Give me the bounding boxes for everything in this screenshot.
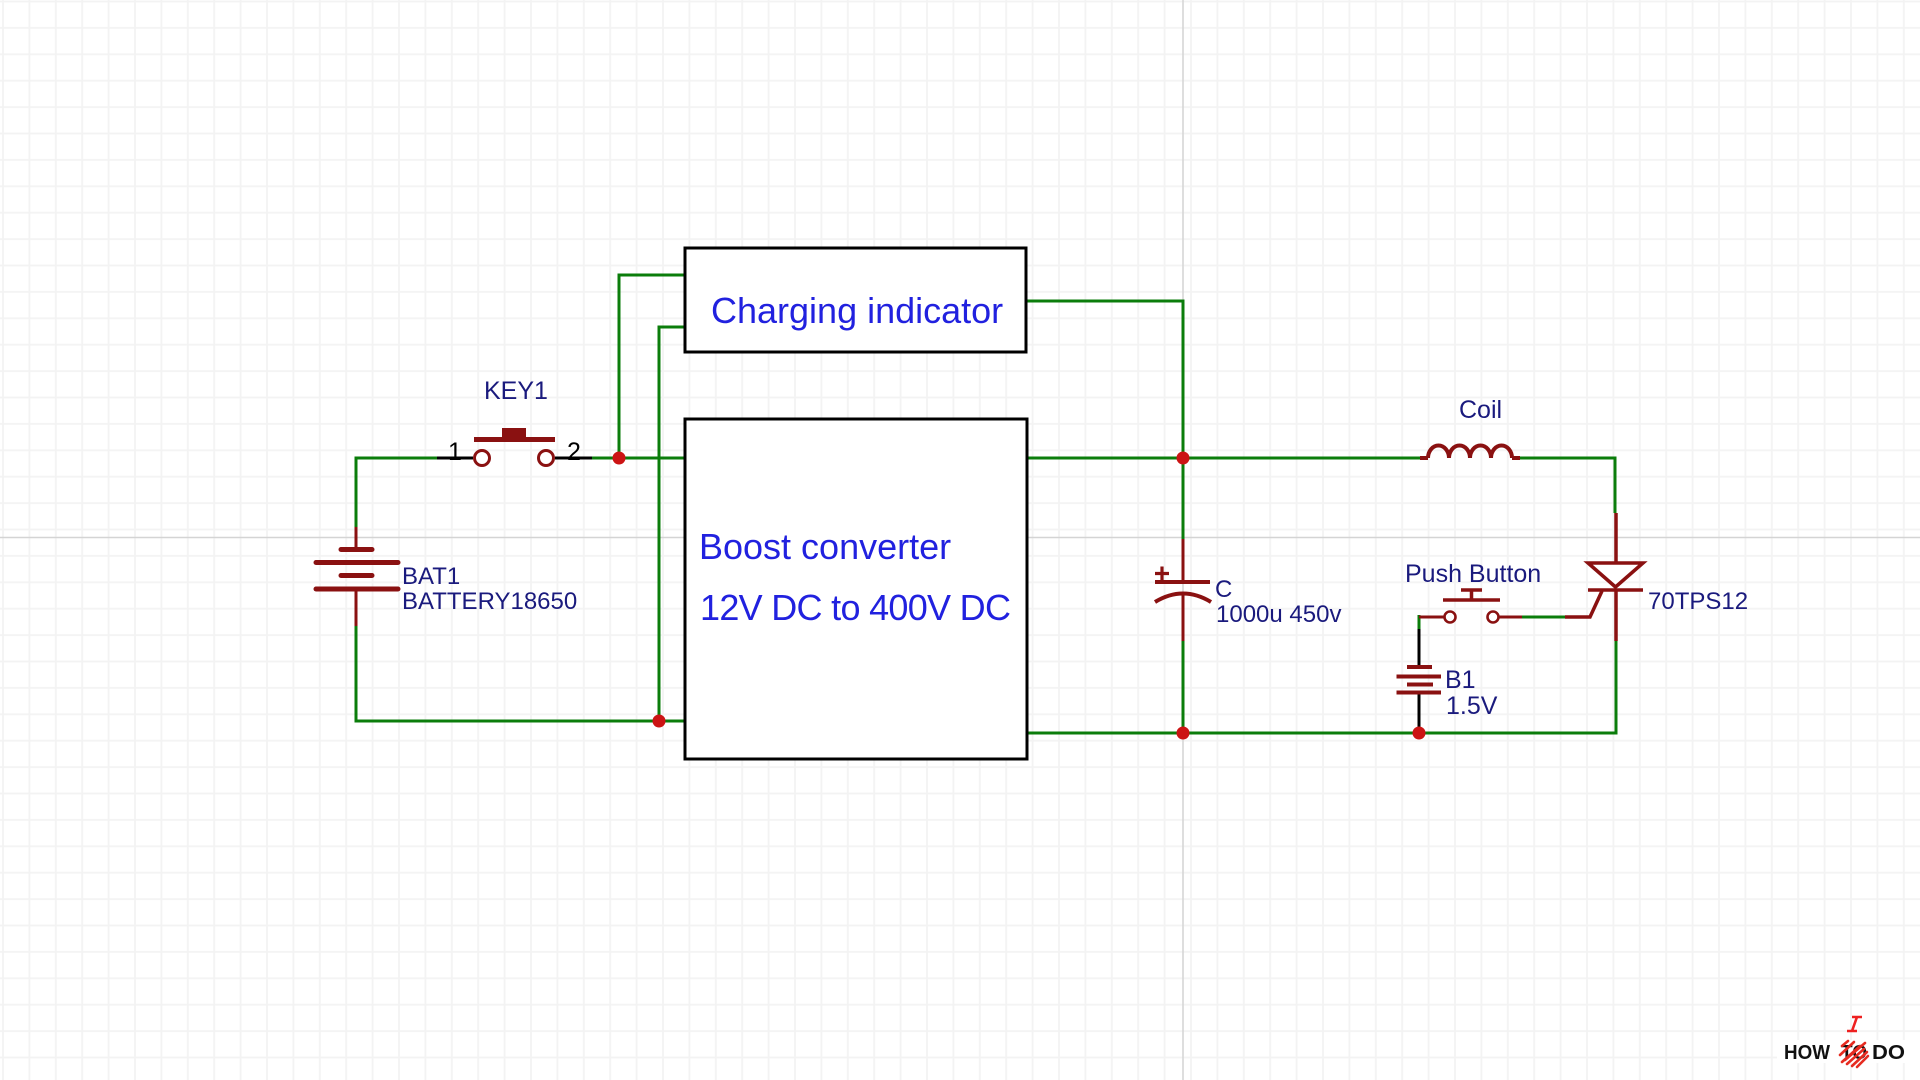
thyristor 70TPS12 (1565, 513, 1643, 641)
switch KEY1 (437, 428, 592, 466)
wire B1 stub (1418, 615, 1421, 629)
svg-text:Charging indicator: Charging indicator (711, 290, 1003, 331)
svg-text:Boost converter: Boost converter (699, 526, 951, 567)
battery BAT1 (316, 527, 398, 626)
inductor Coil (1420, 446, 1520, 459)
wire boost output to coil (1027, 457, 1420, 460)
axis vertical (1182, 0, 1184, 1080)
wire bottom return (1027, 641, 1616, 733)
push button (1419, 590, 1522, 623)
junction node C bottom (1177, 727, 1190, 740)
wire charging indicator second pin down (659, 327, 685, 721)
wire battery bottom to boost converter (356, 626, 685, 721)
junction node B (653, 715, 666, 728)
wire capacitor bottom (1182, 641, 1185, 733)
junction node A (613, 452, 626, 465)
axis horizontal (0, 537, 1920, 539)
wire charging indicator right down (1026, 301, 1183, 458)
wire switch to node A (592, 457, 685, 460)
logo how-to-do (1777, 1017, 1920, 1067)
wire push button to gate (1522, 616, 1565, 619)
svg-text:B1: B1 (1445, 666, 1476, 694)
svg-text:1.5V: 1.5V (1446, 692, 1498, 720)
wire coil to SCR anode (1520, 458, 1615, 513)
svg-text:Push Button: Push Button (1405, 560, 1541, 588)
capacitor C (1155, 539, 1211, 641)
box boost converter (685, 419, 1027, 759)
svg-text:BAT1: BAT1 (402, 563, 460, 590)
junction node B1 (1413, 727, 1426, 740)
box charging indicator (685, 248, 1026, 352)
svg-text:2: 2 (567, 438, 581, 466)
svg-text:1000u 450v: 1000u 450v (1216, 601, 1341, 628)
svg-text:70TPS12: 70TPS12 (1648, 588, 1748, 615)
svg-text:HOW: HOW (1784, 1042, 1830, 1064)
battery B1 (1397, 629, 1442, 733)
wire capacitor top (1182, 458, 1185, 539)
svg-text:C: C (1215, 576, 1232, 603)
svg-text:12V DC to 400V DC: 12V DC to 400V DC (700, 587, 1010, 628)
svg-text:BATTERY18650: BATTERY18650 (402, 588, 577, 615)
svg-text:1: 1 (448, 438, 462, 466)
svg-text:KEY1: KEY1 (484, 377, 548, 405)
junction node C top (1177, 452, 1190, 465)
svg-text:Coil: Coil (1459, 396, 1502, 424)
wire node A up to charging indicator (619, 275, 685, 458)
svg-text:DO: DO (1872, 1042, 1905, 1064)
wire battery top to switch (356, 458, 437, 527)
